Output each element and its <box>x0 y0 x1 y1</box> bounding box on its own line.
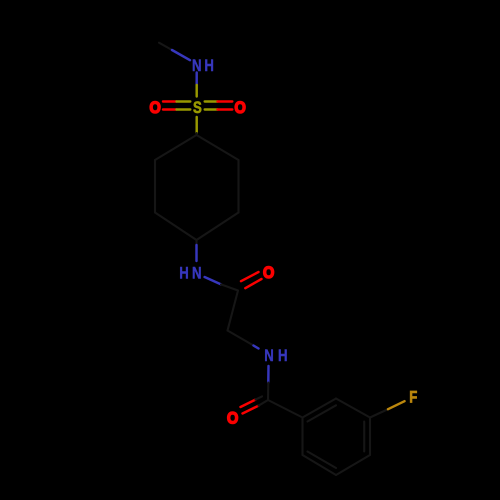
atom label H of N3 <box>278 346 288 365</box>
atom label O sulfonyl left <box>150 99 161 117</box>
svg-text:O: O <box>263 264 274 282</box>
double bond S=O right, line1 sulfur half <box>205 100 218 102</box>
atom label H of N2 <box>179 264 189 283</box>
bond CH2-N3, carbon half <box>228 331 254 346</box>
double bond S=O left, line1 sulfur half <box>177 100 191 102</box>
double bond S=O right, line1 oxygen half <box>218 100 233 102</box>
double bond S=O left, line2 sulfur half <box>177 108 191 110</box>
atom label F <box>409 388 417 407</box>
svg-text:H: H <box>204 57 214 76</box>
cyclohexane ring bond C3-C4 <box>197 213 239 241</box>
benzene ring bond Ar5-Ar6 <box>303 455 337 475</box>
benzene ring bond Ar1-Ar2 <box>303 399 337 418</box>
atom label N1 (sulfonamide N) <box>192 57 202 76</box>
double bond S=O right, line2 oxygen half <box>218 108 233 110</box>
double bond C5=O1, line2 red <box>245 279 261 288</box>
benzene ring bond Ar4-Ar5 <box>336 455 370 475</box>
bond N2-C5 (amide carbonyl), nitrogen half <box>205 277 221 284</box>
double bond C6=O3, line2 carbon half <box>259 400 269 406</box>
atom label H of N1 <box>204 57 214 76</box>
bond N3-C6 (benzamide carbonyl), nitrogen half <box>267 366 270 383</box>
benzene ring bond Ar6-Ar1 <box>301 418 303 456</box>
benzene ring inner double line Ar5-Ar6 <box>308 452 337 469</box>
cyclohexane ring bond C6-C1 <box>155 135 197 160</box>
bond S-C1 (ring top), sulfur half <box>195 117 197 133</box>
bond N2-C5, carbon half <box>221 284 238 290</box>
svg-text:N: N <box>264 347 274 366</box>
double bond S=O left, line1 oxygen half <box>163 100 177 102</box>
atom label N3 (benzamide N) <box>264 347 274 366</box>
bond C5-CH2 carbon <box>228 291 239 331</box>
bond N1-S, sulfur half <box>195 85 197 97</box>
double bond C6=O3, line1 oxygen half <box>241 400 256 407</box>
cyclohexane ring bond C4-C5 <box>155 213 197 241</box>
svg-text:S: S <box>193 99 202 118</box>
cyclohexane ring bond C2-C3 <box>237 160 239 213</box>
svg-text:N: N <box>192 264 202 283</box>
svg-text:F: F <box>409 388 417 407</box>
bond Ar3-F, fluorine half <box>388 401 405 409</box>
bond C6-Ar1 (ipso) carbon <box>268 400 303 418</box>
double bond S=O right, line2 sulfur half <box>205 108 218 110</box>
double bond C5=O1, line1 red <box>241 272 259 281</box>
bond C4-N2 (amide NH), carbon half <box>195 240 197 245</box>
double bond S=O left, line2 oxygen half <box>163 108 177 110</box>
atom label N2 (amide N) <box>192 264 202 283</box>
svg-text:O: O <box>150 99 161 117</box>
atom label O3 (benzamide carbonyl O) <box>227 410 238 428</box>
benzene ring inner double line Ar1-Ar2 <box>308 405 337 421</box>
svg-text:N: N <box>192 57 202 76</box>
benzene ring bond Ar3-Ar4 <box>369 418 371 456</box>
bond CH3-N1, nitrogen half <box>172 50 190 60</box>
svg-text:O: O <box>235 99 246 117</box>
atom label O1 (amide carbonyl O) <box>263 264 274 282</box>
bond CH3-N1 (methyl to sulfonamide N), carbon half <box>159 43 172 50</box>
benzene ring bond Ar2-Ar3 <box>336 399 370 418</box>
bond Ar3-F, carbon half <box>370 409 388 417</box>
bond N1-S, nitrogen half <box>195 73 197 86</box>
double bond C6=O3, line2 oxygen half <box>243 406 259 414</box>
atom label S <box>193 99 202 118</box>
bond N3-C6, carbon half <box>267 383 269 401</box>
bond S-C1, carbon tip <box>195 133 197 135</box>
atom label O sulfonyl right <box>235 99 246 117</box>
cyclohexane ring bond C5-C6 <box>154 160 156 213</box>
svg-text:O: O <box>227 410 238 428</box>
benzene ring inner double line Ar3-Ar4 <box>363 422 365 452</box>
double bond C6=O3, line1 carbon tip <box>256 396 263 399</box>
cyclohexane ring bond C1-C2 <box>197 135 239 160</box>
bond C4-N2, nitrogen half <box>195 245 197 261</box>
bond CH2-N3, nitrogen half <box>254 346 259 349</box>
svg-text:H: H <box>278 346 288 365</box>
svg-text:H: H <box>179 264 189 283</box>
